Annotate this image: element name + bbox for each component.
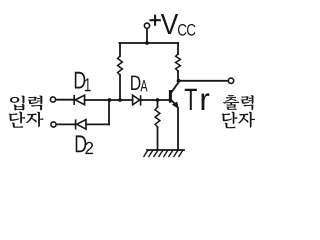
text "출력" output label line1 (223, 95, 239, 110)
label D2 subscript 2 (85, 142, 93, 154)
wire Vcc stub (146, 29, 148, 44)
wire input A from terminal to D1 (56, 99, 74, 101)
resistor R3 base pull-down zigzag (155, 107, 160, 127)
input terminal A circle (50, 97, 55, 102)
diode DA (triangle pointing right, cathode bar right) (133, 95, 141, 105)
diode D2 (cathode bar left, triangle pointing left) (76, 119, 86, 129)
ground bar (147, 149, 184, 151)
label D1 subscript 1 (85, 78, 91, 91)
text "단자" output label line2 (222, 112, 238, 129)
wire DA cathode to base node and transistor base (141, 99, 169, 101)
resistor R2 collector zigzag (176, 54, 181, 71)
wire left resistor lower leg (119, 75, 121, 100)
label +Vcc plus sign (150, 15, 161, 26)
label Tr letter r (202, 93, 210, 110)
wire left resistor upper leg (119, 43, 121, 56)
wire vertical jog from D2 line up to main line (108, 100, 110, 124)
wire collector resistor lower leg (177, 71, 179, 81)
text "단자" input label line2 (9, 112, 26, 128)
label Vcc CC subscript (178, 24, 195, 36)
label D1 letter D (75, 72, 86, 89)
wire emitter down to ground (177, 109, 179, 151)
output terminal circle (228, 78, 233, 83)
label Tr letter T (185, 89, 197, 110)
terminal +Vcc circle (144, 23, 149, 28)
label DA subscript A (140, 80, 147, 91)
transistor Tr base bar (169, 90, 172, 103)
ground hatching (144, 150, 184, 157)
transistor Tr emitter line with arrow (171, 100, 176, 105)
diode D1 (cathode bar left, triangle pointing left) (74, 95, 84, 105)
wire output line (179, 80, 229, 82)
label D2 letter D (76, 135, 87, 152)
junction dot at Vcc rail (145, 41, 149, 45)
wire main line from D1 anode through junctions to DA anode (85, 99, 133, 101)
input terminal B circle (51, 122, 56, 127)
junction node at D2 jog on main line (108, 98, 112, 102)
label DA letter D (131, 76, 140, 90)
text "입력" input label line1 (10, 95, 25, 110)
wire base resistor upper leg (157, 100, 159, 107)
wire top rail from left pull-up to collector resistor (120, 42, 179, 44)
transistor Tr collector line (171, 81, 179, 93)
label Vcc V (161, 14, 178, 34)
resistor R1 left pull-up zigzag (118, 56, 123, 75)
junction node at base resistor (156, 98, 160, 102)
wire collector resistor upper leg (177, 43, 179, 54)
wire D2 anode to corner (86, 123, 109, 125)
junction node at collector/output (177, 79, 181, 83)
wire input B from terminal to D2 (56, 123, 75, 125)
transistor emitter arrowhead (172, 102, 179, 110)
junction node at left resistor on main line (118, 98, 122, 102)
wire base resistor lower leg to ground (157, 127, 159, 150)
